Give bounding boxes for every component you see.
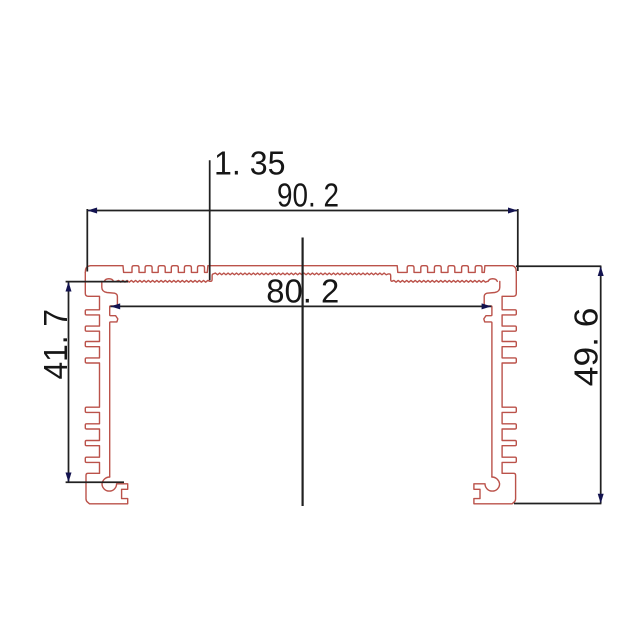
dim 90.2 left extension (86, 209, 88, 272)
arrow 80.2 left (110, 303, 120, 309)
right boss dome (488, 279, 497, 282)
dim 80.2 line (110, 305, 491, 307)
arrow 90.2 right (508, 208, 518, 214)
svg-text:41. 7: 41. 7 (38, 309, 75, 380)
dim 90.2 line (87, 210, 518, 212)
arrow 49.6 bottom (598, 494, 604, 504)
svg-text:80. 2: 80. 2 (266, 274, 339, 311)
svg-text:1. 35: 1. 35 (214, 145, 286, 182)
left wall outer surface with heatsink fins (85, 273, 99, 474)
dim 41.7 top extension (66, 281, 128, 283)
left foot with screw groove and notch (86, 473, 128, 504)
dim 49.6 bottom extension (514, 503, 601, 505)
arrow 90.2 left (87, 208, 97, 214)
left boss dome (104, 279, 113, 282)
arrow 41.7 top (66, 282, 72, 292)
right foot with screw groove and notch (474, 473, 516, 504)
center line (302, 238, 304, 507)
serrated inner top surface (117, 273, 488, 282)
profile outer top surface with comb teeth (85, 266, 516, 273)
right wall inner surface with rib and boss (484, 281, 500, 477)
left wall inner surface with rib and boss (102, 281, 118, 477)
dim 90.2 right extension (517, 209, 519, 271)
right wall outer surface with heatsink fins (502, 273, 516, 474)
dim 41.7 bottom extension (66, 481, 124, 483)
dim 49.6 line (600, 266, 602, 503)
leader 1.35 (209, 160, 211, 280)
arrow 80.2 right (482, 303, 492, 309)
dim 41.7 line (68, 282, 70, 483)
svg-text:49. 6: 49. 6 (568, 308, 605, 387)
dim 49.6 top extension (516, 265, 601, 267)
svg-text:90. 2: 90. 2 (277, 178, 339, 215)
arrow 41.7 bottom (66, 473, 72, 483)
arrow 49.6 top (598, 266, 604, 276)
